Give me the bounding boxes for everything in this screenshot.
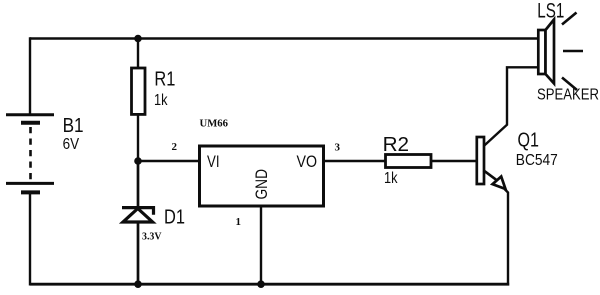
svg-text:B1: B1	[63, 114, 84, 137]
svg-text:R1: R1	[154, 68, 175, 91]
svg-text:BC547: BC547	[516, 152, 558, 169]
svg-text:VI: VI	[207, 153, 220, 171]
svg-text:UM66: UM66	[200, 117, 229, 129]
svg-text:3.3V: 3.3V	[142, 231, 162, 243]
svg-text:LS1: LS1	[537, 0, 564, 23]
svg-text:1k: 1k	[154, 92, 168, 109]
svg-text:GND: GND	[253, 169, 271, 200]
svg-text:1k: 1k	[384, 170, 398, 187]
svg-text:SPEAKER: SPEAKER	[537, 86, 599, 103]
svg-text:1: 1	[236, 216, 242, 228]
svg-text:3: 3	[335, 141, 341, 153]
svg-text:6V: 6V	[63, 136, 80, 153]
svg-text:Q1: Q1	[518, 129, 540, 152]
svg-text:R2: R2	[383, 133, 410, 156]
svg-text:D1: D1	[164, 205, 185, 228]
svg-text:2: 2	[172, 141, 178, 153]
svg-text:VO: VO	[297, 153, 318, 171]
